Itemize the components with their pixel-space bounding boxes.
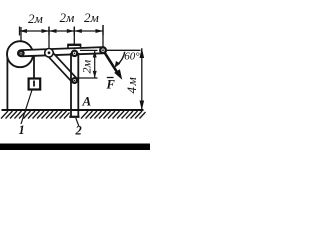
cap right leg — [80, 45, 82, 49]
pulley wheel — [7, 41, 33, 67]
arrowheads span1 — [20, 29, 28, 33]
hub center dot — [20, 52, 22, 54]
force F vector — [105, 52, 120, 75]
tick at pulley axis — [19, 27, 21, 36]
pin at post top — [72, 51, 77, 56]
4m vertical dimension line — [141, 48, 143, 110]
pulley hub ring — [19, 51, 24, 56]
tick at pin B — [48, 27, 50, 36]
60 degree arc — [118, 52, 125, 65]
svg-text:2м: 2м — [60, 10, 75, 25]
ground line — [2, 109, 144, 111]
2m vertical dimension: extension top — [80, 49, 98, 51]
hook inside weight — [33, 81, 35, 87]
tick at right pin — [102, 25, 104, 36]
extension line above pulley — [20, 27, 22, 50]
svg-text:2м: 2м — [84, 10, 99, 25]
2m vertical dimension line — [94, 50, 96, 78]
svg-text:A: A — [82, 94, 92, 109]
weight (load 1) square — [29, 79, 41, 90]
cap left leg — [67, 45, 69, 49]
post top cap — [67, 44, 81, 46]
svg-text:F: F — [106, 78, 116, 92]
horizontal reference line at right pin — [106, 49, 141, 51]
pin strut-post joint — [72, 78, 77, 83]
right rope to weight — [33, 54, 35, 79]
svg-text:2м: 2м — [28, 11, 43, 26]
svg-text:60°: 60° — [124, 51, 140, 63]
scan artifact black band at bottom — [0, 144, 150, 151]
svg-text:2: 2 — [75, 124, 82, 138]
arrowheads span2 — [49, 29, 57, 33]
tick at post axis — [73, 27, 75, 36]
svg-text:1: 1 — [19, 123, 25, 137]
right end pin — [100, 47, 106, 53]
svg-text:4м: 4м — [124, 76, 139, 94]
dimension line (top, y=31) — [20, 30, 104, 32]
arrowheads span3 — [74, 29, 82, 33]
beam (horizontal link bar) — [18, 47, 106, 56]
leader to label 2 — [76, 118, 79, 127]
strut (diagonal link bar) — [46, 50, 77, 83]
left rope to ground anchor — [6, 53, 8, 110]
extension line above right pin — [102, 25, 104, 47]
extension line above post — [73, 27, 75, 45]
svg-text:2м: 2м — [80, 60, 94, 74]
2m vertical dimension: extension bottom — [77, 77, 98, 79]
arc arrowhead on force line — [115, 61, 121, 68]
post bottom cap — [69, 116, 79, 118]
leader to label 1 — [21, 90, 32, 124]
post (vertical column) — [70, 53, 72, 117]
extension line above pin B — [48, 27, 50, 48]
pin B (beam-strut joint) — [45, 49, 54, 58]
ground hatching — [1, 111, 146, 119]
